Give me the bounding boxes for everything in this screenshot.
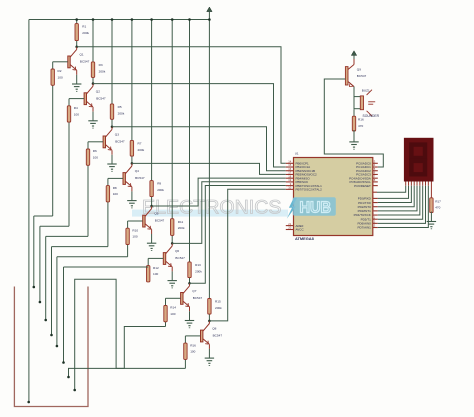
svg-text:24: 24	[372, 163, 375, 167]
svg-text:R2: R2	[58, 69, 62, 73]
svg-text:200k: 200k	[178, 226, 185, 230]
svg-text:17: 17	[288, 171, 291, 175]
svg-text:18: 18	[288, 174, 291, 178]
svg-text:R16: R16	[358, 118, 364, 122]
svg-text:100: 100	[190, 350, 195, 354]
svg-text:23: 23	[372, 160, 375, 164]
svg-text:R6: R6	[93, 149, 97, 153]
svg-text:R16: R16	[190, 343, 196, 347]
svg-text:PD7/AIN1: PD7/AIN1	[357, 226, 371, 230]
svg-text:19: 19	[288, 178, 291, 182]
svg-text:ATMEGA8: ATMEGA8	[295, 236, 315, 241]
svg-text:12: 12	[372, 220, 375, 224]
svg-text:AVCC: AVCC	[296, 228, 305, 232]
svg-text:BC547: BC547	[213, 334, 223, 338]
svg-text:10: 10	[288, 186, 291, 190]
svg-text:R11: R11	[178, 220, 184, 224]
svg-text:25: 25	[372, 167, 375, 171]
svg-text:BC547: BC547	[357, 74, 367, 78]
svg-text:14: 14	[288, 160, 291, 164]
svg-text:R7: R7	[138, 142, 142, 146]
svg-text:PC6/RESET: PC6/RESET	[354, 184, 371, 188]
svg-text:R13: R13	[195, 263, 201, 267]
svg-text:15: 15	[288, 163, 291, 167]
svg-text:470: 470	[358, 124, 363, 128]
svg-text:R9: R9	[157, 182, 161, 186]
svg-text:200k: 200k	[82, 31, 89, 35]
svg-text:100: 100	[58, 76, 63, 80]
svg-text:28: 28	[372, 178, 375, 182]
svg-text:100: 100	[74, 112, 79, 116]
svg-text:BC547: BC547	[135, 176, 145, 180]
svg-text:BC547: BC547	[115, 140, 125, 144]
svg-text:BC547: BC547	[175, 256, 185, 260]
svg-text:Q1: Q1	[80, 53, 84, 57]
svg-text:200k: 200k	[157, 188, 164, 192]
svg-text:Q6: Q6	[175, 249, 179, 253]
svg-text:R1: R1	[82, 25, 86, 29]
svg-text:13: 13	[372, 224, 375, 228]
svg-text:200k: 200k	[215, 306, 222, 310]
svg-text:U1: U1	[295, 152, 299, 156]
svg-text:R8: R8	[113, 186, 117, 190]
svg-text:200k: 200k	[195, 269, 202, 273]
svg-text:R17: R17	[435, 199, 441, 203]
svg-text:26: 26	[372, 171, 375, 175]
svg-text:BC547: BC547	[80, 60, 90, 64]
svg-text:BUZ1: BUZ1	[362, 89, 370, 93]
svg-text:Q9: Q9	[357, 67, 361, 71]
svg-text:ELECTRONICS: ELECTRONICS	[142, 198, 282, 219]
svg-text:200k: 200k	[138, 148, 145, 152]
svg-text:100: 100	[170, 312, 175, 316]
svg-text:R5: R5	[118, 105, 122, 109]
svg-text:Q8: Q8	[212, 327, 216, 331]
svg-text:470: 470	[435, 206, 440, 210]
svg-text:Q4: Q4	[135, 169, 139, 173]
svg-text:11: 11	[372, 215, 375, 219]
svg-text:100: 100	[132, 235, 137, 239]
svg-text:BC547: BC547	[155, 219, 165, 223]
svg-text:Q7: Q7	[192, 289, 196, 293]
svg-text:16: 16	[288, 167, 291, 171]
svg-text:BC547: BC547	[193, 296, 203, 300]
svg-text:27: 27	[372, 174, 375, 178]
svg-text:100: 100	[93, 156, 98, 160]
svg-text:R10: R10	[132, 228, 138, 232]
svg-text:PB7/TOSC2/XTAL2: PB7/TOSC2/XTAL2	[296, 188, 323, 192]
svg-text:100: 100	[153, 272, 158, 276]
svg-text:100: 100	[113, 192, 118, 196]
svg-text:R12: R12	[153, 266, 159, 270]
svg-text:HUB: HUB	[300, 199, 332, 216]
svg-text:Q3: Q3	[115, 133, 119, 137]
svg-text:200k: 200k	[99, 69, 106, 73]
svg-text:R4: R4	[74, 106, 78, 110]
svg-text:Q2: Q2	[96, 89, 100, 93]
svg-text:20: 20	[288, 226, 291, 230]
svg-text:BC547: BC547	[96, 96, 106, 100]
svg-text:200k: 200k	[118, 111, 125, 115]
svg-text:21: 21	[288, 222, 291, 226]
svg-text:R3: R3	[99, 63, 103, 67]
svg-text:R14: R14	[170, 306, 176, 310]
svg-text:R15: R15	[215, 300, 221, 304]
svg-text:Q5: Q5	[154, 212, 158, 216]
svg-text:SOUNDER: SOUNDER	[363, 114, 380, 118]
